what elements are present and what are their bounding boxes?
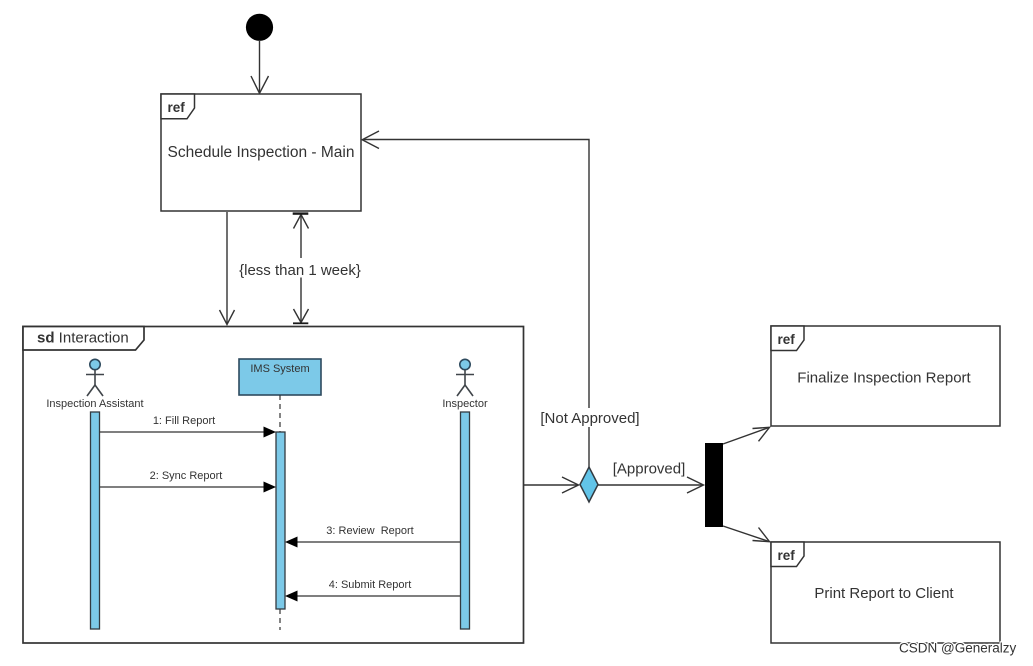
wire fork to Finalize box [723, 427, 770, 444]
svg-text:ref: ref [778, 332, 796, 347]
svg-text:Print Report to Client: Print Report to Client [814, 585, 954, 602]
svg-text:Inspection Assistant: Inspection Assistant [46, 398, 143, 410]
svg-text:2: Sync Report: 2: Sync Report [150, 470, 223, 482]
decision diamond [580, 467, 598, 502]
svg-text:IMS System: IMS System [250, 363, 309, 375]
initial node [246, 14, 273, 41]
activation bar IMS System [276, 432, 285, 609]
actor Inspection Assistant [86, 359, 104, 396]
svg-text:4: Submit Report: 4: Submit Report [329, 579, 412, 591]
ref frame Schedule Inspection - Main [161, 94, 361, 211]
message 1 Fill Report [100, 415, 277, 438]
wire fork to Print box [723, 526, 770, 542]
svg-text:Finalize Inspection Report: Finalize Inspection Report [797, 370, 971, 387]
fork bar [705, 443, 723, 527]
ref frame Print Report to Client [771, 542, 1000, 643]
wire Schedule box down to sd frame [220, 212, 235, 325]
actor Inspector [456, 359, 474, 396]
message 3 Review Report [285, 525, 461, 548]
svg-text:1: Fill Report: 1: Fill Report [153, 415, 215, 427]
svg-text:ref: ref [168, 100, 186, 115]
wire duration constraint double arrow [293, 212, 309, 324]
svg-text:CSDN @Generalzy: CSDN @Generalzy [899, 641, 1016, 656]
svg-text:[Not Approved]: [Not Approved] [540, 410, 639, 427]
wire sd frame to decision diamond [524, 477, 579, 493]
IMS System box [239, 359, 321, 395]
svg-text:Schedule Inspection - Main: Schedule Inspection - Main [168, 144, 355, 161]
activation bar Inspection Assistant [91, 412, 100, 629]
label less than 1 week [236, 258, 364, 279]
activation bar Inspector [461, 412, 470, 629]
wire diamond to fork bar [598, 477, 704, 493]
wire feedback Not Approved to Schedule box [362, 131, 589, 467]
svg-text:ref: ref [778, 548, 796, 563]
svg-text:sd Interaction: sd Interaction [37, 330, 129, 347]
ref frame Finalize Inspection Report [771, 326, 1000, 426]
svg-text:3: Review Report: 3: Review Report [326, 525, 413, 537]
message 4 Submit Report [285, 579, 461, 602]
lifeline IMS dashed [279, 395, 281, 630]
label Not Approved [537, 408, 643, 427]
wire initial to Schedule box [251, 40, 269, 93]
svg-text:{less than 1 week}: {less than 1 week} [239, 262, 361, 279]
message 2 Sync Report [100, 470, 277, 493]
svg-text:[Approved]: [Approved] [613, 461, 686, 478]
svg-text:Inspector: Inspector [442, 398, 488, 410]
sd Interaction frame [23, 327, 524, 644]
